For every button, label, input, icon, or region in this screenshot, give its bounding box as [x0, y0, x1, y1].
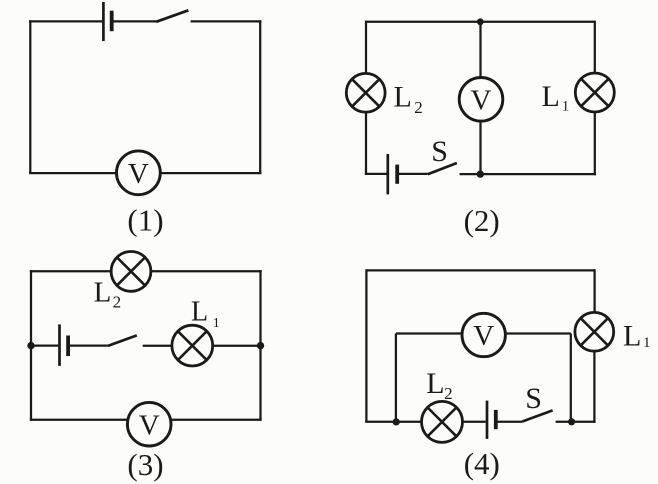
lamp L1 circuit3 [172, 325, 213, 366]
wire circuit4 right edge upper [593, 269, 595, 312]
wire circuit4 top [366, 269, 594, 271]
lamp L2 circuit2 [346, 73, 385, 112]
wire circuit3 left edge [30, 270, 32, 420]
node junction circuit3 right [257, 342, 264, 349]
wire circuit3 bottom [30, 419, 262, 421]
wire circuit3 middle left [30, 344, 59, 346]
voltmeter V circuit2 [459, 78, 503, 122]
wire circuit4 voltmeter branch left vertical [395, 334, 397, 422]
wire circuit3 top [30, 270, 262, 272]
battery circuit2 [388, 154, 397, 194]
node junction circuit4 right [568, 418, 575, 425]
wire circuit4 voltmeter branch right vertical [570, 334, 572, 422]
voltmeter V circuit1 [116, 151, 160, 195]
wire circuit2 right edge lower [594, 112, 596, 176]
svg-text:S: S [525, 382, 542, 415]
voltmeter V circuit3 [127, 402, 171, 446]
svg-text:2: 2 [414, 98, 423, 117]
battery circuit4 [487, 401, 496, 439]
svg-text:2: 2 [444, 384, 453, 403]
wire circuit1 left edge [29, 20, 31, 173]
wire circuit1 bottom [29, 172, 261, 174]
wire circuit4 bottom-left [365, 421, 486, 423]
wire circuit2 left edge lower [365, 112, 367, 176]
svg-text:L: L [394, 81, 412, 114]
wire circuit2 bottom-left [365, 173, 387, 175]
label L2 circuit4 [426, 367, 452, 403]
svg-text:L: L [426, 367, 444, 400]
svg-text:V: V [473, 320, 494, 352]
node junction circuit2 bottom [477, 170, 484, 177]
svg-text:1: 1 [213, 316, 220, 331]
wire circuit4 voltmeter branch horizontal [396, 332, 571, 334]
switch circuit1 blade [156, 10, 188, 21]
wire circuit2 switch-to-right [460, 173, 596, 175]
label L2 circuit3 [94, 276, 122, 311]
wire circuit2 left edge upper [365, 21, 367, 74]
wire circuit1 battery-to-switch [113, 20, 156, 22]
battery circuit1 [103, 2, 111, 41]
svg-text:V: V [128, 158, 149, 190]
svg-text:(2): (2) [464, 203, 500, 238]
svg-text:(3): (3) [127, 447, 163, 482]
label L2 circuit2 [394, 81, 423, 118]
svg-text:1: 1 [643, 335, 651, 351]
lamp L2 circuit3 [111, 252, 151, 292]
switch circuit3 blade [108, 335, 137, 346]
node junction circuit2 top [477, 18, 484, 25]
wire circuit2 top [366, 21, 595, 23]
svg-text:(4): (4) [464, 446, 500, 481]
wire circuit4 left edge [365, 269, 367, 422]
wire circuit4 battery-to-switch [497, 421, 522, 423]
wire circuit2 middle branch [479, 22, 481, 174]
wire circuit3 battery-to-switch [70, 344, 108, 346]
wire circuit2 battery-to-switch [399, 173, 428, 175]
voltmeter V circuit4 [462, 313, 505, 356]
svg-text:(1): (1) [127, 203, 163, 238]
switch S circuit4 blade [522, 410, 552, 421]
wire circuit3 right edge [259, 270, 261, 420]
lamp L2 circuit4 [422, 401, 463, 442]
label L1 circuit3 [191, 297, 220, 331]
node junction circuit4 left [393, 418, 400, 425]
wire circuit4 right edge lower [593, 351, 595, 423]
svg-text:1: 1 [562, 98, 570, 114]
svg-text:2: 2 [113, 292, 122, 311]
node junction circuit3 left [27, 342, 34, 349]
wire circuit1 switch-to-corner [191, 20, 262, 22]
svg-text:S: S [431, 135, 448, 168]
wire circuit3 switch-to-right [143, 345, 262, 347]
svg-text:V: V [139, 409, 160, 441]
lamp L1 circuit2 [575, 73, 614, 112]
wire circuit1 right edge [259, 20, 261, 173]
battery circuit3 [60, 324, 69, 366]
svg-text:L: L [542, 80, 560, 113]
wire circuit4 switch-to-corner [556, 421, 596, 423]
svg-text:V: V [471, 84, 492, 116]
label L1 circuit2 [542, 80, 570, 114]
svg-text:L: L [191, 297, 208, 328]
svg-text:L: L [623, 320, 641, 353]
label L1 circuit4 [623, 320, 651, 353]
switch S circuit2 blade [428, 163, 457, 174]
wire circuit1 top-left segment [29, 20, 102, 22]
svg-text:L: L [94, 276, 112, 308]
wire circuit2 right edge upper [594, 21, 596, 74]
lamp L1 circuit4 [575, 312, 614, 351]
